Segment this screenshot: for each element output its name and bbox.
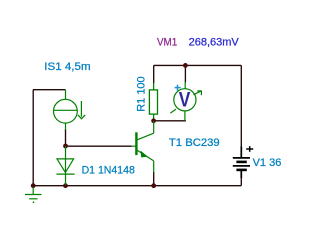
node voltmeter-top junction	[183, 63, 188, 68]
svg-text:R1 100: R1 100	[135, 76, 147, 111]
ground	[25, 187, 42, 202]
wire	[66, 145, 132, 147]
svg-text:D1 1N4148: D1 1N4148	[82, 164, 135, 176]
svg-text:IS1 4,5m: IS1 4,5m	[44, 61, 90, 73]
wire	[154, 64, 242, 66]
wire	[154, 120, 186, 122]
node emitter junction	[151, 183, 156, 188]
svg-text:V1 36: V1 36	[253, 157, 282, 169]
wire	[240, 171, 242, 186]
wire	[153, 65, 155, 83]
wire	[240, 65, 242, 147]
wire	[32, 90, 34, 186]
node diode-bottom junction	[63, 183, 68, 188]
wire	[184, 65, 186, 82]
voltmeter plus sign	[175, 85, 181, 91]
svg-text:268,63mV: 268,63mV	[189, 37, 240, 49]
svg-text:T1 BC239: T1 BC239	[169, 137, 220, 149]
wire	[65, 129, 67, 146]
node base junction	[63, 144, 68, 149]
node collector junction	[151, 118, 156, 123]
wire	[33, 89, 66, 91]
diode D1	[56, 146, 74, 185]
wire	[33, 185, 241, 187]
node ground-left junction	[31, 183, 36, 188]
wire	[153, 172, 155, 186]
transistor T1	[132, 121, 154, 172]
battery V1	[233, 147, 250, 179]
battery plus sign	[246, 146, 253, 152]
current source IS1	[54, 90, 86, 130]
voltmeter VM1	[170, 82, 201, 121]
svg-text:VM1: VM1	[157, 37, 177, 49]
svg-text:V: V	[179, 87, 191, 111]
resistor R1	[149, 83, 157, 119]
